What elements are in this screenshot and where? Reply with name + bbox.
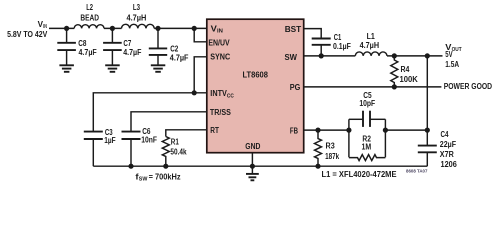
svg-text:1µF: 1µF — [104, 135, 115, 145]
capacitor C3 1uF — [84, 127, 116, 166]
node junction R3 top — [315, 128, 320, 133]
capacitor C4 22uF — [418, 129, 457, 169]
svg-text:R4: R4 — [401, 64, 410, 74]
pin INTVCC label — [210, 88, 234, 99]
wire BST to C1 — [304, 29, 322, 39]
resistor R1 50.4k — [162, 137, 186, 167]
svg-text:X7R: X7R — [440, 149, 455, 159]
svg-text:POWER GOOD: POWER GOOD — [444, 81, 492, 91]
svg-text:SW: SW — [285, 52, 298, 62]
ground under C8 — [59, 65, 74, 72]
node junction C1/SW — [319, 53, 324, 58]
capacitor C5 10pF — [359, 90, 375, 127]
wire C5/R2 network frame — [349, 119, 386, 157]
capacitor C1 0.1uF — [312, 32, 351, 56]
inductor L2 (bead) — [74, 2, 104, 28]
svg-text:EN/UV: EN/UV — [208, 37, 229, 47]
svg-text:1M: 1M — [362, 141, 372, 151]
svg-text:TR/SS: TR/SS — [210, 107, 231, 117]
wire bottom ground rail — [93, 165, 427, 167]
wire VOUT line — [387, 55, 443, 57]
svg-text:GND: GND — [245, 141, 260, 151]
svg-text:187k: 187k — [325, 151, 339, 161]
capacitor C2 4.7uF — [149, 28, 189, 65]
svg-text:INTV: INTV — [210, 88, 227, 98]
svg-text:4.7µH: 4.7µH — [127, 12, 147, 22]
inductor L1 4.7uH — [355, 31, 387, 56]
op-amp U1 LT8608 IC body — [207, 19, 304, 153]
node junction EN — [192, 26, 197, 31]
node junction network left — [346, 128, 351, 133]
ground under C7 — [105, 65, 120, 72]
wire VIN top rail — [49, 27, 207, 29]
label fSW = 700kHz — [135, 171, 180, 182]
capacitor C8 4.7uF — [57, 28, 96, 65]
svg-text:0.1µF: 0.1µF — [333, 41, 351, 51]
svg-text:CC: CC — [227, 93, 235, 99]
pin FB label — [290, 126, 298, 136]
wire SYNC to INTVCC — [194, 57, 207, 93]
pin TR/SS label — [210, 107, 231, 117]
pin PG label — [290, 82, 301, 92]
wire FB line — [304, 129, 349, 131]
wire GND stub — [251, 153, 253, 167]
svg-text:PG: PG — [290, 82, 301, 92]
node junction C7 — [110, 26, 115, 31]
svg-text:SW: SW — [139, 177, 148, 183]
svg-text:5V: 5V — [445, 49, 452, 59]
capacitor C7 4.7uF — [103, 28, 141, 65]
label 8608 TA07 — [406, 168, 428, 173]
svg-text:L2: L2 — [86, 2, 93, 12]
svg-text:L3: L3 — [133, 2, 140, 12]
wire RT line — [166, 130, 207, 137]
node junction SYNC/INTVCC — [192, 90, 197, 95]
pin BST label — [285, 24, 302, 34]
svg-text:4.7µH: 4.7µH — [360, 40, 380, 50]
node junction R4 top — [392, 53, 397, 58]
svg-text:10pF: 10pF — [359, 98, 375, 108]
pin GND label — [245, 141, 260, 151]
svg-text:OUT: OUT — [452, 47, 462, 53]
wire TR/SS line — [131, 112, 207, 132]
label L1 part number — [322, 169, 397, 179]
node junction R4 bottom — [392, 84, 397, 89]
svg-text:BST: BST — [285, 24, 302, 34]
node junction network right — [383, 128, 388, 133]
pin VIN label — [211, 23, 223, 34]
svg-text:1.5A: 1.5A — [445, 59, 459, 69]
wire VOUT down to C4 — [426, 56, 428, 146]
svg-text:50.4k: 50.4k — [170, 146, 186, 156]
node junction C2 — [155, 26, 160, 31]
svg-text:BEAD: BEAD — [80, 12, 99, 22]
wire PG line — [304, 86, 442, 88]
resistor R3 187k — [315, 130, 340, 166]
pin SW label — [285, 52, 298, 62]
svg-text:= 700kHz: = 700kHz — [149, 171, 181, 181]
svg-text:L1 = XFL4020-472ME: L1 = XFL4020-472ME — [322, 169, 397, 179]
node junction C6 bottom — [128, 164, 133, 169]
node junction C8 — [64, 26, 69, 31]
svg-text:22µF: 22µF — [440, 139, 456, 149]
inductor L3 4.7uH — [122, 2, 155, 28]
svg-text:R3: R3 — [326, 141, 335, 151]
wire EN/UV drop — [194, 28, 207, 41]
node junction R3 bottom — [315, 164, 320, 169]
svg-text:IN: IN — [217, 28, 223, 34]
wire FB network to C4 — [385, 129, 427, 131]
svg-text:10nF: 10nF — [141, 135, 157, 145]
pin SYNC label — [210, 52, 230, 62]
resistor R4 100K — [391, 56, 419, 87]
node junction R1 bottom — [163, 164, 168, 169]
svg-text:SYNC: SYNC — [210, 52, 230, 62]
svg-text:4.7µF: 4.7µF — [123, 47, 141, 57]
node junction C4 top — [425, 53, 430, 58]
svg-text:R1: R1 — [171, 137, 179, 147]
node VOUT label — [445, 42, 462, 69]
svg-text:5.8V TO 42V: 5.8V TO 42V — [7, 29, 47, 39]
node VIN input label — [7, 20, 47, 39]
svg-text:LT8608: LT8608 — [243, 69, 269, 79]
capacitor C6 10nF — [122, 126, 158, 166]
svg-text:4.7µF: 4.7µF — [79, 47, 97, 57]
pin RT label — [210, 125, 219, 135]
svg-text:8608 TA07: 8608 TA07 — [406, 168, 428, 173]
wire SW line — [304, 55, 356, 57]
svg-text:100K: 100K — [400, 74, 419, 84]
svg-text:RT: RT — [210, 125, 219, 135]
svg-text:1206: 1206 — [441, 159, 457, 169]
wire INTVCC line — [93, 93, 207, 132]
ground main symbol — [246, 166, 259, 180]
ground under C2 — [151, 65, 166, 72]
svg-text:C4: C4 — [441, 129, 449, 139]
resistor R2 1M — [349, 133, 386, 160]
node POWER GOOD label — [444, 81, 492, 91]
node junction GND pin — [250, 164, 255, 169]
node junction C4/FB — [425, 128, 430, 133]
pin EN/UV label — [208, 37, 229, 47]
svg-text:4.7µF: 4.7µF — [170, 52, 189, 62]
svg-text:FB: FB — [290, 126, 298, 136]
